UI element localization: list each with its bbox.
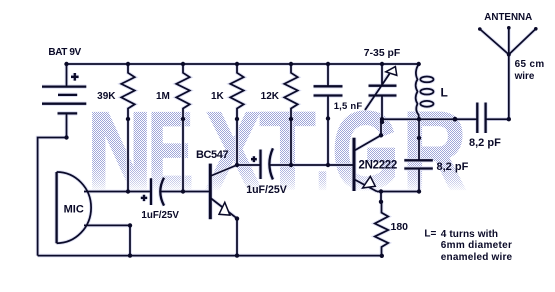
- svg-text:1uF/25V: 1uF/25V: [141, 210, 179, 221]
- svg-text:1uF/25V: 1uF/25V: [246, 184, 287, 196]
- svg-text:180: 180: [391, 221, 409, 233]
- svg-text:8,2 pF: 8,2 pF: [469, 137, 501, 149]
- svg-text:L: L: [441, 86, 448, 100]
- svg-text:65 cm: 65 cm: [515, 59, 545, 70]
- svg-text:BC547: BC547: [196, 149, 228, 161]
- svg-text:8,2 pF: 8,2 pF: [437, 161, 469, 173]
- svg-text:4 turns with: 4 turns with: [441, 229, 498, 240]
- svg-text:1,5 nF: 1,5 nF: [334, 101, 363, 112]
- svg-text:ANTENNA: ANTENNA: [484, 12, 532, 23]
- svg-text:7-35 pF: 7-35 pF: [364, 48, 400, 59]
- svg-text:1M: 1M: [156, 91, 170, 102]
- svg-text:1K: 1K: [211, 91, 225, 102]
- svg-text:N: N: [87, 90, 152, 213]
- svg-text:L=: L=: [424, 229, 436, 240]
- svg-text:wire: wire: [514, 71, 535, 82]
- svg-text:12K: 12K: [261, 91, 280, 102]
- svg-text:enameled wire: enameled wire: [441, 252, 513, 263]
- svg-text:BAT 9V: BAT 9V: [48, 47, 81, 58]
- svg-text:2N2222: 2N2222: [359, 159, 397, 171]
- svg-text:E: E: [148, 90, 194, 213]
- svg-text:MIC: MIC: [64, 204, 84, 216]
- svg-text:6mm diameter: 6mm diameter: [441, 240, 512, 251]
- svg-text:39K: 39K: [97, 91, 116, 102]
- svg-text:R: R: [403, 90, 467, 213]
